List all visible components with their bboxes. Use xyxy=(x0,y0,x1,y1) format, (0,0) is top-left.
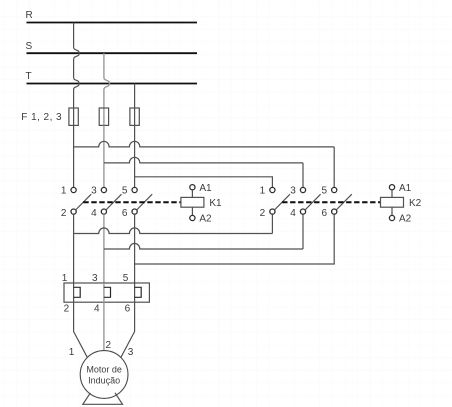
svg-text:R: R xyxy=(26,10,33,21)
svg-text:3: 3 xyxy=(128,347,134,358)
svg-text:1: 1 xyxy=(61,185,67,196)
svg-text:S: S xyxy=(26,41,33,52)
contactor K1 pole 3-4: blade xyxy=(106,194,122,210)
contactor K1 pole 1-2: pin 1 terminal xyxy=(71,187,76,192)
svg-text:6: 6 xyxy=(122,208,128,219)
coil K2 A1 stub xyxy=(391,190,393,198)
wire K1 pin 6 to overload pin 5 xyxy=(134,214,136,283)
fuse F3 xyxy=(130,108,139,125)
overload heater element 1-2 xyxy=(73,283,75,302)
coil K1 body xyxy=(181,197,204,207)
svg-text:4: 4 xyxy=(91,208,97,219)
contactor K2 pole 1-2: blade xyxy=(274,194,290,210)
svg-text:K2: K2 xyxy=(409,198,422,209)
coil K2 A2 stub xyxy=(391,207,393,215)
svg-text:2: 2 xyxy=(260,208,266,219)
svg-text:1: 1 xyxy=(260,185,266,196)
wire fuse F2 to K1 pin 3 xyxy=(103,125,105,187)
contactor K1 pole 3-4: pin 3 terminal xyxy=(101,187,106,192)
coil K2 body xyxy=(381,197,404,207)
fuse F1 xyxy=(69,108,78,125)
wire phase R tap to K2 pin 5 (jumps two drops) xyxy=(74,141,335,187)
svg-text:1: 1 xyxy=(69,347,75,358)
wire overload pin 4 to motor V (lead 2) xyxy=(103,302,105,350)
svg-text:K1: K1 xyxy=(209,198,222,209)
contactor K2 pole 1-2: pin 2 terminal xyxy=(270,209,275,214)
wire fuse F3 to K1 pin 5 xyxy=(134,125,136,187)
svg-text:4: 4 xyxy=(94,303,100,314)
contactor K1 pole 5-6: pin 5 terminal xyxy=(132,187,137,192)
svg-text:3: 3 xyxy=(290,185,296,196)
svg-text:2: 2 xyxy=(61,208,67,219)
coil K1 A2 stub xyxy=(191,207,193,215)
svg-text:3: 3 xyxy=(91,185,97,196)
coil K1 terminal A1 xyxy=(190,185,195,190)
contactor K2 pole 3-4: blade xyxy=(305,194,321,210)
coil K1 A1 stub xyxy=(191,190,193,198)
svg-text:4: 4 xyxy=(290,208,296,219)
svg-text:2: 2 xyxy=(106,340,112,351)
svg-text:2: 2 xyxy=(64,303,70,314)
svg-text:Motor de: Motor de xyxy=(86,364,122,374)
contactor K2 pole 1-2: pin 1 terminal xyxy=(270,187,275,192)
svg-text:5: 5 xyxy=(123,273,129,284)
wire bus T xyxy=(27,83,198,85)
svg-text:A2: A2 xyxy=(199,213,212,224)
wire K2 pin 4 return rail (jumps one drop) xyxy=(302,214,304,249)
svg-text:5: 5 xyxy=(321,185,327,196)
overload heater element 5-6 xyxy=(134,283,136,302)
wire phase R drop (jumps S and T buses) xyxy=(74,23,80,109)
wire phase T drop xyxy=(134,84,136,109)
svg-text:6: 6 xyxy=(321,208,327,219)
coil K1 terminal A2 xyxy=(190,215,195,220)
svg-text:F 1, 2, 3: F 1, 2, 3 xyxy=(21,112,62,123)
wire K2 pin 2 return rail (jumps two drops) xyxy=(271,214,273,233)
wire overload pin 2 to motor U (lead 1) xyxy=(74,302,88,357)
wire overload pin 6 to motor W (lead 3) xyxy=(121,302,135,357)
svg-text:1: 1 xyxy=(62,273,68,284)
contactor K2 pole 5-6: blade xyxy=(336,194,352,210)
wire fuse F1 to K1 pin 1 xyxy=(73,125,75,187)
contactor K1 linkage (dashed) xyxy=(83,201,181,203)
motor M1 (Motor de Inducao) xyxy=(80,351,128,399)
contactor K1 pole 3-4: pin 4 terminal xyxy=(101,209,106,214)
contactor K1 pole 5-6: blade xyxy=(137,194,153,210)
wire K1 pin 2 to overload pin 1 xyxy=(73,214,75,283)
contactor K2 pole 5-6: pin 6 terminal xyxy=(332,209,337,214)
svg-text:A1: A1 xyxy=(399,183,412,194)
svg-text:T: T xyxy=(26,71,32,82)
svg-text:A2: A2 xyxy=(399,213,412,224)
svg-text:3: 3 xyxy=(92,273,98,284)
overload relay body xyxy=(64,283,149,302)
contactor K2 linkage (dashed) xyxy=(282,201,380,203)
fuse F2 xyxy=(99,108,108,125)
contactor K2 pole 3-4: pin 3 terminal xyxy=(300,187,305,192)
svg-text:Indução: Indução xyxy=(88,375,120,385)
contactor K1 pole 5-6: pin 6 terminal xyxy=(132,209,137,214)
motor stand xyxy=(83,393,123,405)
contactor K1 pole 1-2: pin 2 terminal xyxy=(71,209,76,214)
svg-text:A1: A1 xyxy=(199,183,212,194)
wire phase T tap to K2 pin 1 xyxy=(135,177,273,188)
wire phase S tap to K2 pin 3 (jumps one drop) xyxy=(104,157,303,187)
overload heater element 3-4 xyxy=(103,283,105,302)
svg-text:5: 5 xyxy=(122,185,128,196)
wire K2 pin 6 return rail xyxy=(135,214,335,264)
svg-text:6: 6 xyxy=(125,303,131,314)
wire bus S xyxy=(27,52,198,54)
wire bus R xyxy=(27,22,198,24)
coil K2 terminal A2 xyxy=(389,215,394,220)
contactor K2 pole 5-6: pin 5 terminal xyxy=(332,187,337,192)
contactor K1 pole 1-2: blade xyxy=(76,194,92,210)
contactor K2 pole 3-4: pin 4 terminal xyxy=(300,209,305,214)
wire phase S drop (jumps T bus) xyxy=(104,53,110,108)
coil K2 terminal A1 xyxy=(389,185,394,190)
wire K1 pin 4 to overload pin 3 xyxy=(103,214,105,283)
